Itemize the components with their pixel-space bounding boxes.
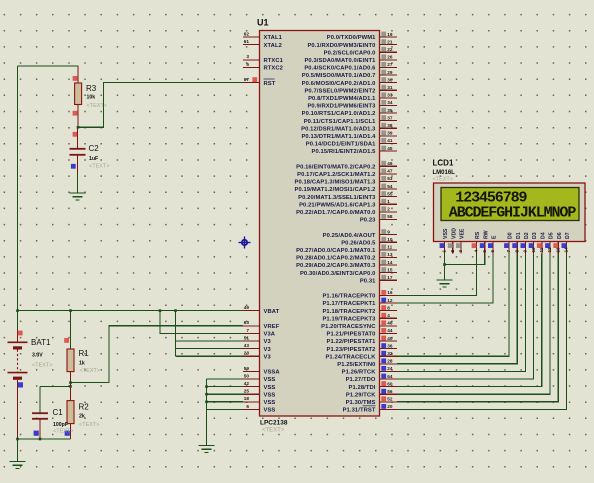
origin marker (blue crosshair) bbox=[239, 237, 251, 249]
svg-text:BAT1: BAT1 bbox=[31, 338, 51, 347]
svg-text:3: 3 bbox=[458, 250, 463, 253]
U1 pin 49 VBAT (left) bbox=[243, 305, 280, 315]
U1 pin 34 P0.9/RXD1/PWM6/EINT3 (right) bbox=[307, 100, 397, 110]
svg-text:P0.9/RXD1/PWM6/EINT3: P0.9/RXD1/PWM6/EINT3 bbox=[307, 104, 376, 110]
svg-text:P0.6/MOSI0/CAP0.2/AD1.0: P0.6/MOSI0/CAP0.2/AD1.0 bbox=[302, 81, 376, 87]
svg-text:7: 7 bbox=[506, 250, 511, 253]
svg-text:P0.1/RXD0/PWM3/EINT0: P0.1/RXD0/PWM3/EINT0 bbox=[307, 43, 375, 49]
svg-text:P0.22/AD1.7/CAP0.0/MAT0.0: P0.22/AD1.7/CAP0.0/MAT0.0 bbox=[296, 210, 375, 216]
U1 pin 22 P0.2/SCL0/CAP0.0 (right) bbox=[324, 47, 397, 57]
svg-text:53: 53 bbox=[387, 176, 393, 181]
node junction dot at (444.5,264.5) bbox=[443, 263, 446, 266]
svg-text:11: 11 bbox=[539, 247, 544, 252]
svg-text:E: E bbox=[492, 235, 498, 239]
U1 pin 21 P0.1/RXD0/PWM3/EINT0 (right) bbox=[307, 39, 397, 49]
capacitor C2 bbox=[70, 127, 86, 172]
svg-text:P1.25/EXTIN0: P1.25/EXTIN0 bbox=[337, 362, 375, 368]
svg-text:P1.22/PIPESTAT1: P1.22/PIPESTAT1 bbox=[327, 339, 377, 345]
U1 pin 12 P1.17/TRACEPKT1 (right) bbox=[322, 298, 397, 308]
svg-text:P0.15/RI1/EINT2/AD1.5: P0.15/RI1/EINT2/AD1.5 bbox=[312, 149, 377, 155]
LCD1 pin 10 D3 bbox=[529, 232, 539, 253]
svg-text:VBAT: VBAT bbox=[264, 309, 280, 315]
ground bottom-left bbox=[10, 462, 26, 469]
svg-text:RTXC1: RTXC1 bbox=[264, 58, 284, 64]
wire RST net (R3/C2 junction to U1 RST pin 57) bbox=[78, 83, 243, 128]
svg-text:P0.11/CTS1/CAP1.1/SCL1: P0.11/CTS1/CAP1.1/SCL1 bbox=[304, 119, 376, 125]
display LCD1 LM016L body bbox=[434, 183, 586, 242]
wire V3 to pin 51 bbox=[176, 340, 244, 342]
wire D5 net (U1 P1.29 to LCD D5) bbox=[397, 254, 550, 395]
wire VBAT rail (battery to U1 VBAT pin 49) bbox=[18, 310, 244, 312]
node R2 bottom pin state square bbox=[65, 431, 70, 436]
LCD1 pin 1 VSS bbox=[440, 228, 450, 253]
wire D3 net (U1 P1.27 to LCD D3) bbox=[397, 254, 534, 380]
U1 pin 24 P1.26/RTCK (right) bbox=[342, 366, 397, 376]
svg-text:<TEXT>: <TEXT> bbox=[32, 363, 52, 369]
svg-text:<TEXT>: <TEXT> bbox=[80, 368, 100, 374]
U1 pin 1 P0.21/PWM5/AD1.6/CAP1.3 (right) bbox=[299, 199, 397, 209]
LCD1 pin 9 D2 bbox=[521, 232, 531, 253]
U1 pin 55 P0.20/MAT1.3/SSEL1/EINT3 (right) bbox=[298, 191, 397, 201]
U1 pin 11 P0.27/AD0.0/CAP0.1/MAT0.1 (right) bbox=[296, 244, 397, 254]
svg-text:P1.26/RTCK: P1.26/RTCK bbox=[342, 370, 377, 376]
LCD1 pin 12 D5 bbox=[545, 232, 555, 253]
svg-text:VSS: VSS bbox=[264, 377, 276, 383]
svg-text:2: 2 bbox=[450, 250, 455, 253]
svg-text:56: 56 bbox=[387, 389, 393, 394]
svg-text:16: 16 bbox=[387, 290, 393, 295]
node BAT1 negative pin state square bbox=[18, 382, 23, 387]
svg-text:VEE: VEE bbox=[460, 228, 466, 239]
svg-text:10: 10 bbox=[387, 237, 393, 242]
node R3 top pin state square bbox=[73, 76, 78, 81]
U1 pin 16 P1.16/TRACEPKT0 (right) bbox=[322, 290, 397, 300]
svg-text:50: 50 bbox=[244, 373, 250, 378]
ground below U1 bbox=[199, 446, 215, 453]
U1 pin 29 P0.5/MISO0/MAT0.1/AD0.7 (right) bbox=[302, 70, 397, 80]
LCD1 pin 2 VDD bbox=[448, 228, 458, 254]
svg-text:V3: V3 bbox=[264, 347, 272, 353]
capacitor C1 bbox=[32, 413, 48, 439]
svg-text:<TEXT>: <TEXT> bbox=[262, 428, 285, 434]
U1 pin 28 P1.25/EXTIN0 (right) bbox=[337, 358, 397, 368]
wire V3 to pin 23 bbox=[176, 355, 244, 357]
wire rail to R1 top bbox=[70, 311, 72, 349]
U1 pin 26 P0.3/SDA0/MAT0.0/EINT1 (right) bbox=[304, 54, 397, 64]
U1 pin 31 P0.7/SSEL0/PWM2/EINT2 (right) bbox=[304, 85, 397, 95]
node junction dot at (17.5,310.6) bbox=[16, 309, 19, 312]
svg-text:P0.13/DTR1/MAT1.1/AD1.4: P0.13/DTR1/MAT1.1/AD1.4 bbox=[301, 134, 376, 140]
svg-text:P0.26/AD0.5: P0.26/AD0.5 bbox=[341, 240, 376, 246]
svg-text:5: 5 bbox=[246, 62, 249, 67]
svg-text:P0.7/SSEL0/PWM2/EINT2: P0.7/SSEL0/PWM2/EINT2 bbox=[304, 88, 375, 94]
svg-text:51: 51 bbox=[244, 335, 250, 340]
U1 pin 32 P1.24/TRACECLK (right) bbox=[325, 351, 397, 361]
LCD1 pin 7 D0 bbox=[504, 232, 513, 253]
svg-text:54: 54 bbox=[387, 184, 393, 189]
svg-text:R2: R2 bbox=[79, 403, 90, 412]
svg-text:43: 43 bbox=[244, 343, 250, 348]
svg-text:15: 15 bbox=[387, 267, 393, 272]
svg-text:P0.8/TXD1/PWM4/AD1.1: P0.8/TXD1/PWM4/AD1.1 bbox=[308, 96, 376, 102]
U1 pin 39 P0.13/DTR1/MAT1.1/AD1.4 (right) bbox=[301, 130, 397, 140]
svg-text:7: 7 bbox=[246, 328, 249, 333]
node junction dot at (206.5,386.6) bbox=[205, 385, 208, 388]
U1 pin 4 P1.19/TRACEPKT3 (right) bbox=[322, 313, 397, 323]
U1 pin 2 P0.22/AD1.7/CAP0.0/MAT0.0 (right) bbox=[296, 206, 397, 216]
U1 pin 38 P0.12/DSR1/MAT1.0/AD1.3 (right) bbox=[301, 123, 397, 133]
U1 pin 64 P1.27/TDO (right) bbox=[346, 374, 397, 384]
svg-text:D1: D1 bbox=[516, 232, 522, 239]
svg-text:D4: D4 bbox=[540, 232, 546, 239]
LCD1 pin 11 D4 bbox=[537, 232, 547, 253]
svg-text:VSS: VSS bbox=[443, 228, 449, 239]
svg-text:D7: D7 bbox=[565, 232, 571, 239]
svg-text:52: 52 bbox=[387, 397, 393, 402]
svg-text:62: 62 bbox=[244, 31, 250, 36]
wire RS net (U1 P1.16 pin16 to LCD RS) bbox=[397, 254, 477, 296]
svg-text:P1.16/TRACEPKT0: P1.16/TRACEPKT0 bbox=[322, 294, 375, 300]
svg-text:P0.21/PWM5/AD1.6/CAP1.3: P0.21/PWM5/AD1.6/CAP1.3 bbox=[299, 202, 376, 208]
U1 pin 20 P1.31/TRST (right) bbox=[343, 404, 397, 414]
svg-text:VDD: VDD bbox=[451, 228, 457, 239]
LCD1 pin 14 D7 bbox=[562, 232, 572, 253]
U1 pin 46 P0.16/EINT0/MAT0.2/CAP0.2 (right) bbox=[296, 161, 397, 171]
svg-text:13: 13 bbox=[387, 252, 393, 257]
svg-text:37: 37 bbox=[387, 115, 393, 120]
svg-text:48: 48 bbox=[387, 321, 393, 326]
svg-text:49: 49 bbox=[244, 305, 250, 310]
svg-text:12: 12 bbox=[387, 298, 393, 303]
svg-text:VSS: VSS bbox=[264, 400, 276, 406]
svg-text:63: 63 bbox=[244, 320, 250, 325]
U1 pin 18 VSS (left) bbox=[243, 396, 275, 406]
svg-text:P1.18/TRACEPKT2: P1.18/TRACEPKT2 bbox=[322, 309, 375, 315]
svg-text:14: 14 bbox=[387, 260, 393, 265]
node R3 bottom pin state square bbox=[73, 111, 78, 116]
svg-text:42: 42 bbox=[244, 381, 250, 386]
U1 pin 25 VSS (left) bbox=[243, 389, 275, 399]
node junction dot at (70.5,310.6) bbox=[69, 309, 72, 312]
svg-text:46: 46 bbox=[387, 161, 393, 166]
svg-text:60: 60 bbox=[387, 381, 393, 386]
U1 pin 19 P0.0/TXD0/PWM1 (right) bbox=[327, 32, 397, 42]
svg-text:58: 58 bbox=[387, 214, 393, 219]
battery BAT1 bbox=[8, 329, 28, 439]
svg-text:9: 9 bbox=[387, 229, 390, 234]
U1 pin 10 P0.26/AD0.5 (right) bbox=[341, 237, 397, 247]
wire D6 net (U1 P1.30 to LCD D6) bbox=[397, 254, 558, 402]
svg-text:29: 29 bbox=[387, 70, 393, 75]
svg-text:P0.0/TXD0/PWM1: P0.0/TXD0/PWM1 bbox=[327, 35, 376, 41]
svg-text:C1: C1 bbox=[53, 408, 64, 417]
svg-text:6: 6 bbox=[490, 250, 495, 253]
svg-text:23: 23 bbox=[244, 351, 250, 356]
svg-text:<TEXT>: <TEXT> bbox=[53, 429, 73, 435]
U1 pin 15 P0.30/AD0.3/EINT3/CAP0.0 (right) bbox=[300, 267, 397, 277]
node C2 bottom pin state square bbox=[71, 164, 76, 169]
svg-text:ABCDEFGHIJKLMNOP: ABCDEFGHIJKLMNOP bbox=[449, 204, 577, 221]
svg-text:5: 5 bbox=[482, 250, 487, 253]
svg-text:RS: RS bbox=[475, 231, 481, 239]
U1 pin 58 P0.23 (right) bbox=[360, 214, 397, 224]
svg-text:LPC2138: LPC2138 bbox=[260, 420, 288, 427]
svg-text:55: 55 bbox=[387, 191, 393, 196]
svg-text:4: 4 bbox=[387, 313, 390, 318]
svg-text:D5: D5 bbox=[549, 232, 555, 239]
svg-text:1uF: 1uF bbox=[89, 156, 98, 162]
U1 pin 47 P0.17/CAP1.2/SCK1/MAT1.2 (right) bbox=[297, 168, 397, 178]
svg-text:P0.17/CAP1.2/SCK1/MAT1.2: P0.17/CAP1.2/SCK1/MAT1.2 bbox=[297, 172, 375, 178]
svg-text:39: 39 bbox=[387, 131, 393, 136]
wire D7 net (U1 P1.31 to LCD D7) bbox=[397, 254, 566, 410]
node junction dot at (206.5,394.2) bbox=[205, 393, 208, 396]
U1 pin 37 P0.11/CTS1/CAP1.1/SCL1 (right) bbox=[304, 115, 397, 125]
svg-text:P1.20/TRACESYNC: P1.20/TRACESYNC bbox=[321, 324, 376, 330]
node junction dot at (175.5,310.6) bbox=[174, 309, 177, 312]
U1 pin 59 VSSA (left) bbox=[243, 366, 280, 376]
svg-text:38: 38 bbox=[387, 123, 393, 128]
U1 pin 30 P0.6/MOSI0/CAP0.2/AD1.0 (right) bbox=[302, 77, 397, 87]
ground below C2 bbox=[70, 193, 86, 200]
resistor R2 bbox=[67, 386, 74, 439]
svg-text:VSS: VSS bbox=[264, 385, 276, 391]
svg-text:P1.19/TRACEPKT3: P1.19/TRACEPKT3 bbox=[322, 316, 376, 322]
wire V3 to pin 43 bbox=[176, 348, 244, 350]
svg-text:44: 44 bbox=[387, 328, 393, 333]
U1 pin 50 VSS (left) bbox=[243, 373, 275, 383]
wire 3.3V rail top (left rail to R3 top) bbox=[18, 66, 79, 76]
svg-text:59: 59 bbox=[244, 366, 250, 371]
svg-text:RST: RST bbox=[264, 81, 276, 87]
svg-text:VSSA: VSSA bbox=[264, 370, 281, 376]
svg-text:D0: D0 bbox=[508, 232, 514, 239]
svg-text:2: 2 bbox=[387, 207, 390, 212]
svg-text:LM016L: LM016L bbox=[433, 170, 456, 176]
svg-text:2k: 2k bbox=[79, 414, 85, 420]
svg-text:C2: C2 bbox=[89, 144, 100, 153]
ground below LCD bbox=[437, 280, 453, 287]
U1 pin 13 P0.28/AD0.1/CAP0.2/MAT0.2 (right) bbox=[296, 252, 397, 262]
svg-text:64: 64 bbox=[387, 374, 393, 379]
svg-text:RTXC2: RTXC2 bbox=[264, 66, 284, 72]
svg-text:47: 47 bbox=[387, 169, 393, 174]
svg-text:P0.2/SCL0/CAP0.0: P0.2/SCL0/CAP0.0 bbox=[324, 50, 376, 56]
svg-text:XTAL2: XTAL2 bbox=[264, 43, 282, 49]
U1 pin 27 P0.4/SCK0/CAP0.1/AD0.6 (right) bbox=[304, 62, 397, 72]
svg-text:27: 27 bbox=[387, 62, 393, 67]
svg-text:22: 22 bbox=[387, 47, 393, 52]
svg-text:41: 41 bbox=[387, 138, 393, 143]
svg-text:LCD1: LCD1 bbox=[433, 159, 454, 168]
LCD1 pin 6 E bbox=[488, 235, 498, 254]
U1 pin 52 P1.30/TMS (right) bbox=[346, 396, 397, 406]
svg-text:3.3V: 3.3V bbox=[32, 353, 43, 359]
node junction dot at (40,439) bbox=[39, 438, 42, 441]
svg-text:18: 18 bbox=[244, 396, 250, 401]
resistor R1 bbox=[67, 349, 74, 386]
svg-text:P0.31: P0.31 bbox=[360, 278, 376, 284]
svg-text:30: 30 bbox=[387, 77, 393, 82]
node R1 top pin state square bbox=[64, 338, 69, 343]
U1 pin 33 P0.8/TXD1/PWM4/AD1.1 (right) bbox=[308, 92, 397, 102]
node junction dot at (206.5,401.8) bbox=[205, 401, 208, 404]
svg-text:34: 34 bbox=[387, 100, 393, 105]
U1 pin 6 VSS (left) bbox=[243, 404, 275, 414]
wire V3 branch vertical (rail down to V3 pins) bbox=[175, 311, 177, 357]
svg-text:32: 32 bbox=[387, 351, 393, 356]
U1 pin 45 P0.15/RI1/EINT2/AD1.5 (right) bbox=[312, 146, 397, 156]
svg-text:P0.5/MISO0/MAT0.1/AD0.7: P0.5/MISO0/MAT0.1/AD0.7 bbox=[302, 73, 376, 79]
U1 pin 7 V3A (left) bbox=[243, 328, 276, 338]
svg-text:P0.28/AD0.1/CAP0.2/MAT0.2: P0.28/AD0.1/CAP0.2/MAT0.2 bbox=[296, 256, 375, 262]
svg-text:P1.17/TRACEPKT1: P1.17/TRACEPKT1 bbox=[322, 301, 376, 307]
chip U1 LPC2138 body bbox=[260, 31, 380, 417]
node junction dot at (78,127.3) bbox=[77, 126, 80, 129]
U1 pin 5 RTXC2 (left) bbox=[243, 62, 283, 72]
svg-text:D3: D3 bbox=[532, 232, 538, 239]
svg-text:36: 36 bbox=[387, 343, 393, 348]
U1 pin 23 V3 (left) bbox=[243, 351, 271, 361]
svg-text:D2: D2 bbox=[524, 232, 530, 239]
svg-text:11: 11 bbox=[387, 245, 392, 250]
svg-text:13: 13 bbox=[555, 247, 560, 253]
svg-text:61: 61 bbox=[244, 39, 250, 44]
U1 pin 43 V3 (left) bbox=[243, 343, 271, 353]
svg-text:P1.30/TMS: P1.30/TMS bbox=[346, 400, 376, 406]
U1 pin 61 XTAL2 (left) bbox=[243, 39, 282, 49]
U1 pin 53 P0.18/CAP1.3/MISO1/MAT1.3 (right) bbox=[294, 176, 397, 186]
svg-text:P0.16/EINT0/MAT0.2/CAP0.2: P0.16/EINT0/MAT0.2/CAP0.2 bbox=[296, 164, 375, 170]
svg-text:4: 4 bbox=[474, 250, 479, 253]
U1 pin 14 P0.29/AD0.2/CAP0.3/MAT0.3 (right) bbox=[296, 260, 397, 270]
wire D1 net (U1 P1.25 to LCD D1) bbox=[397, 254, 517, 364]
svg-text:P0.12/DSR1/MAT1.0/AD1.3: P0.12/DSR1/MAT1.0/AD1.3 bbox=[301, 126, 376, 132]
svg-text:P0.19/MAT1.2/MOSI1/CAP1.2: P0.19/MAT1.2/MOSI1/CAP1.2 bbox=[294, 187, 375, 193]
U1 pin 57 RST (left) bbox=[243, 77, 276, 87]
node junction dot at (70.5,386.4) bbox=[69, 385, 72, 388]
svg-text:VSS: VSS bbox=[264, 408, 276, 414]
svg-text:1k: 1k bbox=[79, 361, 85, 367]
svg-text:XTAL1: XTAL1 bbox=[264, 35, 283, 41]
svg-text:P0.27/AD0.0/CAP0.1/MAT0.1: P0.27/AD0.0/CAP0.1/MAT0.1 bbox=[296, 248, 376, 254]
node C2 top pin state square bbox=[73, 132, 78, 137]
wire D2 net (U1 P1.26 to LCD D2) bbox=[397, 254, 525, 372]
svg-text:40: 40 bbox=[387, 336, 393, 341]
U1 pin 54 P0.19/MAT1.2/MOSI1/CAP1.2 (right) bbox=[294, 184, 397, 194]
svg-text:<TEXT>: <TEXT> bbox=[433, 177, 453, 183]
node C1 bottom pin state square bbox=[34, 431, 39, 436]
svg-text:8: 8 bbox=[514, 250, 519, 253]
wire ground rail (battery/C1/R2 bottoms) bbox=[18, 438, 71, 440]
svg-text:P0.3/SDA0/MAT0.0/EINT1: P0.3/SDA0/MAT0.0/EINT1 bbox=[304, 58, 376, 64]
svg-text:V3: V3 bbox=[264, 339, 272, 345]
wire V3A branch (rail to U1 pin 7) bbox=[160, 311, 243, 334]
wire LCD VSS to ground bbox=[444, 254, 446, 281]
wire VSS pins to ground stem bbox=[207, 379, 244, 446]
svg-text:P0.14/DCD1/EINT1/SDA1: P0.14/DCD1/EINT1/SDA1 bbox=[306, 142, 376, 148]
svg-text:26: 26 bbox=[387, 55, 393, 60]
wire C1 top lead bbox=[39, 386, 41, 412]
svg-text:P0.4/SCK0/CAP0.1/AD0.6: P0.4/SCK0/CAP0.1/AD0.6 bbox=[304, 66, 376, 72]
svg-text:P1.24/TRACECLK: P1.24/TRACECLK bbox=[325, 354, 376, 360]
wire +3.3V vertical rail (left) bbox=[17, 66, 19, 329]
svg-text:45: 45 bbox=[387, 146, 393, 151]
svg-text:17: 17 bbox=[387, 275, 393, 280]
wire C2 to ground bbox=[77, 172, 79, 193]
U1 pin 17 P0.31 (right) bbox=[360, 275, 397, 285]
svg-text:P1.31/TRST: P1.31/TRST bbox=[343, 408, 376, 414]
svg-text:RW: RW bbox=[483, 230, 489, 239]
svg-text:1: 1 bbox=[387, 199, 390, 204]
U1 pin 8 P1.18/TRACEPKT2 (right) bbox=[322, 305, 397, 315]
wire left ground stem bbox=[17, 439, 19, 462]
U1 pin 44 P1.21/PIPESTAT0 (right) bbox=[327, 328, 397, 338]
LCD1 pin 3 VEE bbox=[456, 228, 466, 253]
svg-text:VREF: VREF bbox=[264, 324, 280, 330]
svg-text:<TEXT>: <TEXT> bbox=[89, 164, 109, 170]
svg-text:P0.20/MAT1.3/SSEL1/EINT3: P0.20/MAT1.3/SSEL1/EINT3 bbox=[298, 195, 376, 201]
LCD1 screen bbox=[441, 188, 579, 221]
svg-text:R3: R3 bbox=[86, 84, 97, 93]
LCD1 pin 5 RW bbox=[480, 230, 490, 253]
node junction dot at (17.5,439) bbox=[16, 438, 19, 441]
U1 pin 35 P0.10/RTS1/CAP1.0/AD1.2 (right) bbox=[302, 108, 397, 118]
U1 pin 60 P1.28/TDI (right) bbox=[349, 381, 398, 391]
svg-text:33: 33 bbox=[387, 93, 393, 98]
svg-text:V3A: V3A bbox=[264, 332, 276, 338]
node junction dot at (70.5,382.6) bbox=[69, 381, 72, 384]
svg-text:P1.21/PIPESTAT0: P1.21/PIPESTAT0 bbox=[327, 332, 376, 338]
svg-text:9: 9 bbox=[523, 250, 528, 253]
svg-text:31: 31 bbox=[387, 85, 393, 90]
U1 pin 9 P0.25/AD0.4/AOUT (right) bbox=[323, 229, 397, 239]
svg-text:10k: 10k bbox=[87, 95, 96, 101]
svg-text:P1.29/TCK: P1.29/TCK bbox=[346, 392, 376, 398]
svg-text:1: 1 bbox=[442, 250, 447, 253]
svg-text:P0.25/AD0.4/AOUT: P0.25/AD0.4/AOUT bbox=[323, 233, 376, 239]
U1 pin 41 P0.14/DCD1/EINT1/SDA1 (right) bbox=[306, 138, 397, 148]
LCD1 pin 8 D1 bbox=[512, 232, 522, 253]
wire LCD RW to ground net bbox=[445, 254, 485, 265]
svg-text:10: 10 bbox=[531, 247, 536, 253]
svg-text:P0.29/AD0.2/CAP0.3/MAT0.3: P0.29/AD0.2/CAP0.3/MAT0.3 bbox=[296, 263, 376, 269]
U1 pin 48 P1.20/TRACESYNC (right) bbox=[321, 320, 397, 330]
svg-text:VSS: VSS bbox=[264, 392, 276, 398]
U1 pin 62 XTAL1 (left) bbox=[243, 31, 283, 41]
U1 pin 40 P1.22/PIPESTAT1 (right) bbox=[327, 336, 397, 346]
wire D4 net (U1 P1.28 to LCD D4) bbox=[397, 254, 542, 387]
svg-text:25: 25 bbox=[244, 389, 250, 394]
svg-text:P0.18/CAP1.3/MISO1/MAT1.3: P0.18/CAP1.3/MISO1/MAT1.3 bbox=[294, 180, 376, 186]
svg-text:3: 3 bbox=[246, 54, 249, 59]
svg-text:P1.27/TDO: P1.27/TDO bbox=[346, 377, 376, 383]
wire E net (U1 P1.17 pin12 to LCD E) bbox=[397, 254, 493, 304]
svg-text:19: 19 bbox=[387, 32, 393, 37]
U1 pin 3 RTXC1 (left) bbox=[243, 54, 284, 64]
svg-text:D6: D6 bbox=[557, 232, 563, 239]
U1 pin 51 V3 (left) bbox=[243, 335, 271, 345]
svg-text:P0.23: P0.23 bbox=[360, 218, 376, 224]
U1 pin 42 VSS (left) bbox=[243, 381, 275, 391]
LCD1 pin 4 RS bbox=[472, 231, 482, 253]
svg-text:R1: R1 bbox=[79, 349, 90, 358]
svg-text:35: 35 bbox=[387, 108, 393, 113]
svg-text:24: 24 bbox=[387, 366, 393, 371]
U1 pin 63 VREF (left) bbox=[243, 320, 280, 330]
svg-text:P1.28/TDI: P1.28/TDI bbox=[349, 385, 376, 391]
svg-text:P0.10/RTS1/CAP1.0/AD1.2: P0.10/RTS1/CAP1.0/AD1.2 bbox=[302, 111, 376, 117]
